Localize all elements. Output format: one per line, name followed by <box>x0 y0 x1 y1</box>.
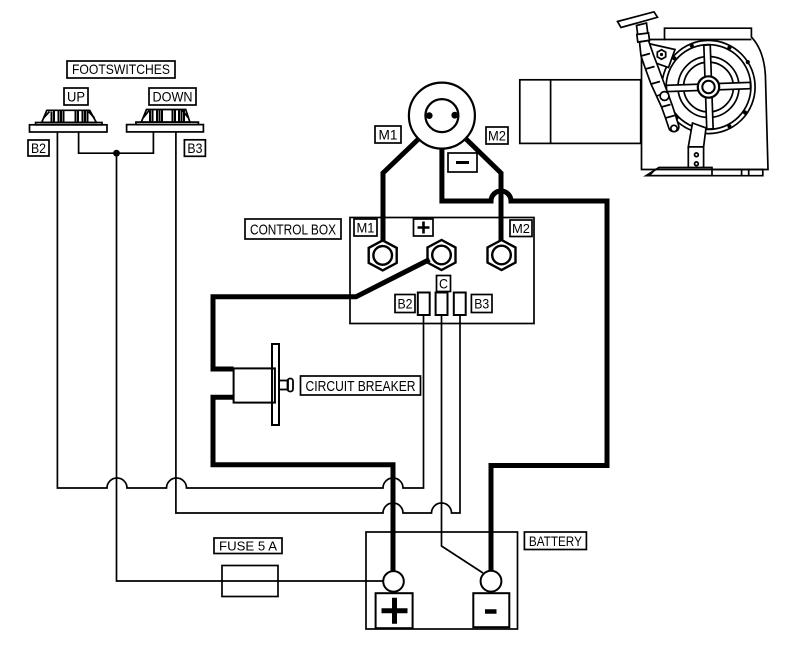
windlass body <box>642 28 769 169</box>
control box <box>350 218 534 324</box>
wire M2 connector to control box <box>466 139 501 241</box>
label M1 connector <box>375 126 401 143</box>
svg-text:B3: B3 <box>187 140 202 156</box>
svg-text:B2: B2 <box>398 296 413 312</box>
label BATTERY <box>524 532 586 550</box>
label CONTROL BOX <box>245 219 341 239</box>
wire UP-right terminal to junction <box>79 132 154 153</box>
circuit breaker plate <box>272 344 279 425</box>
wire negative connector to battery minus <box>442 148 607 571</box>
svg-text:DOWN: DOWN <box>153 89 193 105</box>
wire junction to fuse to battery plus <box>117 153 384 581</box>
label plus control box <box>414 219 434 236</box>
footswitch UP <box>30 110 108 132</box>
windlass hub <box>698 76 719 97</box>
label B3 footswitch <box>184 140 205 157</box>
windlass base plate <box>649 170 763 176</box>
svg-text:B3: B3 <box>474 296 489 312</box>
wire M1 connector to control box <box>383 139 419 242</box>
motor connector outer circle <box>409 83 475 149</box>
svg-text:BATTERY: BATTERY <box>529 533 583 549</box>
terminal spade B3 <box>454 293 466 316</box>
label FUSE 5 A <box>214 538 282 554</box>
label UP <box>64 88 88 105</box>
svg-text:CIRCUIT BREAKER: CIRCUIT BREAKER <box>306 379 416 395</box>
terminal nut C <box>428 240 456 270</box>
connector pin left <box>426 112 433 119</box>
svg-text:C: C <box>439 276 448 292</box>
svg-text:M2: M2 <box>512 221 530 236</box>
windlass gypsy wheel <box>662 40 755 133</box>
svg-text:M1: M1 <box>357 221 375 236</box>
label minus connector <box>448 153 477 172</box>
connector pin right <box>451 112 458 119</box>
terminal nut M1 <box>369 240 397 270</box>
wire UP-left terminal to control box B2 <box>57 132 423 488</box>
windlass crank handle <box>618 12 679 132</box>
battery plus box <box>376 593 413 628</box>
label DOWN <box>149 88 196 105</box>
label M2 control box <box>510 220 532 237</box>
battery terminal minus <box>481 571 502 592</box>
svg-text:FOOTSWITCHES: FOOTSWITCHES <box>72 61 170 77</box>
terminal spade C <box>436 293 448 316</box>
label M2 connector <box>486 127 508 144</box>
wire DOWN-right terminal to control box B3 <box>176 132 460 513</box>
windlass spokes <box>665 44 752 131</box>
label FOOTSWITCHES <box>67 61 175 78</box>
circuit breaker stub <box>279 381 288 390</box>
junction dot <box>113 150 120 157</box>
label C <box>437 276 451 292</box>
svg-text:M1: M1 <box>379 127 398 143</box>
windlass support strut <box>646 123 712 176</box>
wire positive: control box C nut to circuit breaker to battery plus <box>213 260 430 370</box>
label CIRCUIT BREAKER <box>301 376 421 395</box>
windlass mount bracket <box>646 43 675 68</box>
windlass rim bolts <box>672 44 750 133</box>
battery box <box>366 532 518 629</box>
svg-text:CONTROL BOX: CONTROL BOX <box>250 223 336 239</box>
circuit breaker body <box>234 368 275 402</box>
terminal spade B2 <box>418 293 430 316</box>
fuse F1 <box>222 566 278 597</box>
svg-text:B2: B2 <box>31 140 46 156</box>
label B2 footswitch <box>28 140 49 156</box>
label M1 control box <box>354 219 377 236</box>
wire control box C to battery minus <box>442 315 484 573</box>
battery terminal plus <box>383 571 404 592</box>
strut bolts <box>695 153 699 166</box>
terminal nut M2 <box>488 240 516 270</box>
footswitch DOWN <box>127 110 204 132</box>
svg-text:M2: M2 <box>488 129 506 144</box>
svg-text:FUSE 5 A: FUSE 5 A <box>219 539 277 554</box>
label B2 control box <box>395 295 415 313</box>
motor connector inner circle <box>425 99 458 132</box>
battery minus box <box>473 593 509 627</box>
windlass motor housing <box>520 80 641 144</box>
label B3 control box <box>471 295 492 313</box>
svg-text:UP: UP <box>67 89 85 105</box>
